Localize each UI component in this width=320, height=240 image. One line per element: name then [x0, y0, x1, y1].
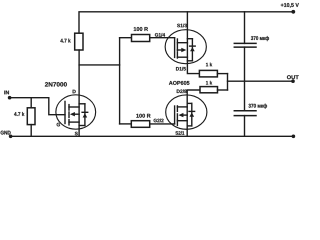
label pin D (Q1 drain) [73, 90, 76, 93]
capacitor C1 370mkf plates [234, 42, 256, 44]
transistor U1a AOP605 p-channel body circle (top) [165, 30, 206, 64]
wire R5 to gate G2 [150, 123, 175, 125]
label GND [1, 131, 11, 135]
label pin D2/8 [177, 89, 187, 93]
wire C2 to ground rail [244, 116, 246, 137]
transistor U1a body diode [191, 39, 193, 61]
transistor Q1 2N7000 body circle [56, 95, 96, 129]
label pin D1/5 [176, 67, 186, 71]
label 370 mkf (C1) [251, 36, 269, 41]
node OUT terminal dot [291, 79, 295, 83]
wire IN to 2N7000 gate [10, 98, 65, 115]
transistor U1a channel segments [176, 39, 178, 44]
label pin S2/1 [175, 131, 184, 135]
wire GND ground rail [10, 135, 294, 137]
transistor U1b bottom stub (source) [177, 120, 187, 122]
label 1 k (R4) [206, 81, 212, 85]
label 4.7 k (R6) [14, 112, 24, 116]
wire drain node branch to divider column [79, 64, 120, 66]
wire IN node down to R6 [30, 98, 32, 108]
node IN terminal dot [8, 96, 12, 100]
wire output join column [227, 74, 229, 90]
transistor Q1 channel segments [68, 105, 70, 111]
transistor Q1 body diode [84, 104, 86, 126]
label pin S (Q1 source) [75, 132, 78, 136]
transistor U1a gate bar [174, 38, 176, 58]
wire U1b spine: R4 corner down to ground rail [187, 90, 200, 136]
transistor U1b gate bar [174, 106, 176, 124]
transistor Q1 source stub [69, 121, 79, 123]
wire R2 to gate G1 [150, 37, 175, 39]
wire column to R2 [120, 37, 132, 39]
transistor U1a body stub with arrow (points right) [177, 49, 181, 51]
transistor U1b body diode [191, 103, 193, 126]
label 4.7 k (R1) [60, 39, 70, 43]
transistor Q1 body stub with arrow (points left) [74, 113, 79, 115]
wire C1 to C2 (crosses OUT wire) [244, 47, 246, 111]
wire supply rail to C1 [244, 12, 246, 44]
label 370 mkf (C2) [249, 104, 268, 109]
transistor Q1 drain stub [69, 106, 79, 108]
label 2N7000 [45, 82, 67, 86]
wire R4 to output column [218, 89, 228, 91]
label IN [4, 91, 9, 95]
transistor U1b top stub (drain) [177, 106, 187, 108]
resistor R6 4.7k (bottom left) [27, 108, 35, 125]
node +10,5 V terminal dot [291, 10, 295, 14]
label pin G (Q1 gate) [57, 123, 60, 127]
transistor U1b channel segments [176, 106, 178, 112]
resistor R1 4.7k (top left) [75, 33, 83, 50]
wire to OUT terminal [228, 80, 294, 82]
resistor R2 100R (top) [132, 35, 150, 42]
resistor R4 1k (bottom) [200, 87, 218, 93]
resistor R3 1k (top) [199, 70, 217, 77]
wire R6 to ground rail [30, 125, 32, 137]
label 100 R (R2) [134, 27, 148, 31]
wire vertical column joining the 100R resistors [119, 38, 121, 124]
label 100 R (R5) [136, 114, 150, 118]
label OUT [287, 75, 299, 79]
wire R3 to output column [217, 73, 227, 75]
label pin G1/4 [155, 33, 165, 37]
label U1 AOP605 [169, 81, 190, 85]
transistor Q1 body diode jogs [79, 103, 85, 105]
transistor U1b AOP605 n-channel body circle (bottom) [166, 95, 207, 129]
label pin S1/3 [177, 24, 187, 28]
wire top +10,5V supply rail [79, 12, 294, 33]
label +10,5 V [281, 3, 299, 8]
capacitor C2 370mkf plates [234, 110, 256, 112]
label 1 k (R3) [206, 63, 212, 67]
node GND terminal dot [9, 135, 13, 139]
node ground rail right end dot [292, 135, 296, 139]
transistor U1a bottom stub (drain) [177, 56, 187, 58]
transistor U1a body diode jogs [187, 38, 192, 40]
wire R1 to 2N7000 drain (spine runs to ground rail) [78, 50, 80, 136]
wire column to R5 [120, 123, 132, 125]
label pin G2/2 [154, 119, 164, 123]
transistor U1b body diode jogs [187, 102, 192, 104]
resistor R5 100R (bottom) [131, 121, 149, 128]
transistor Q1 gate bar [64, 101, 66, 123]
wire U1a spine: supply rail down to R3 corner [187, 12, 199, 74]
transistor U1a top stub (source) [177, 42, 187, 44]
transistor U1b body stub with arrow (points left) [183, 114, 187, 116]
